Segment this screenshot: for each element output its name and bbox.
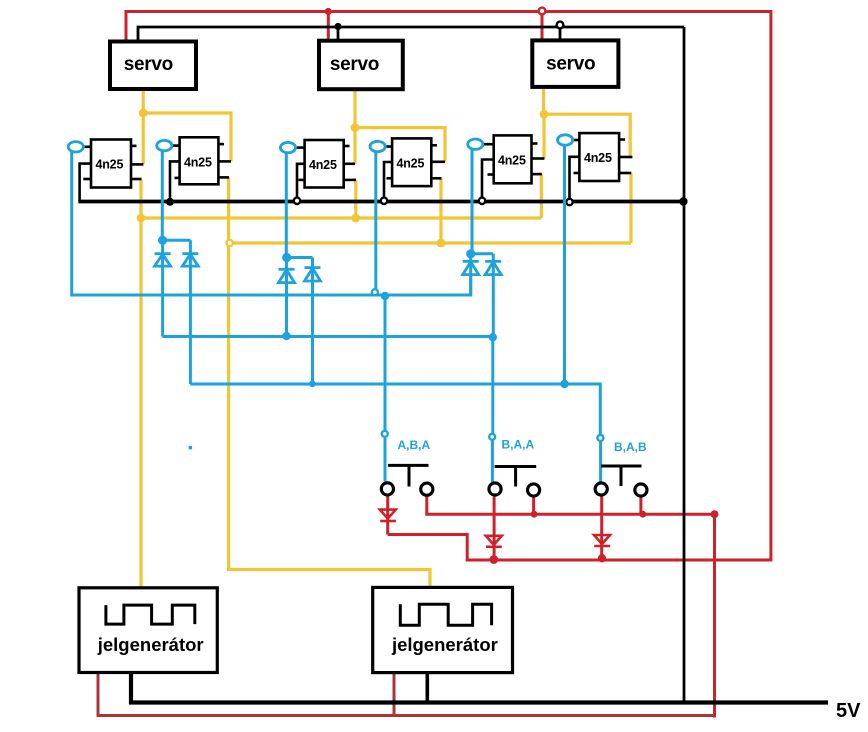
svg-text:servo: servo bbox=[124, 54, 173, 75]
svg-text:A,B,A: A,B,A bbox=[398, 438, 431, 452]
svg-text:4n25: 4n25 bbox=[96, 158, 124, 172]
svg-text:servo: servo bbox=[546, 54, 595, 75]
svg-text:5V: 5V bbox=[836, 700, 861, 722]
svg-text:servo: servo bbox=[330, 54, 379, 75]
svg-text:4n25: 4n25 bbox=[498, 154, 526, 168]
svg-text:jelgenerátor: jelgenerátor bbox=[391, 634, 498, 655]
svg-text:4n25: 4n25 bbox=[584, 151, 612, 165]
svg-text:B,A,B: B,A,B bbox=[614, 440, 647, 454]
svg-text:4n25: 4n25 bbox=[184, 156, 212, 170]
svg-text:4n25: 4n25 bbox=[397, 157, 425, 171]
svg-text:4n25: 4n25 bbox=[309, 158, 337, 172]
svg-text:B,A,A: B,A,A bbox=[502, 438, 535, 452]
svg-text:jelgenerátor: jelgenerátor bbox=[97, 634, 204, 655]
